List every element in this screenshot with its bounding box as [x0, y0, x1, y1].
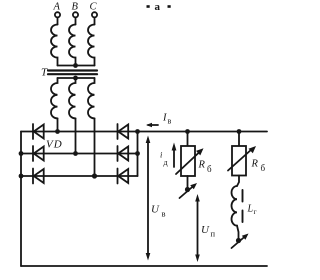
svg-text:д: д — [164, 158, 168, 167]
svg-text:R: R — [198, 160, 206, 171]
primary star link wire — [58, 65, 95, 67]
wire branch1 to resistor — [187, 132, 189, 147]
node left bus row3 — [19, 174, 24, 179]
node phase a row1 — [55, 129, 60, 134]
arc electrode dot no.2 — [236, 238, 241, 243]
wire secondary b to bridge row 2 — [75, 118, 77, 153]
label R6 no.1 — [198, 160, 213, 175]
transformer T primary winding phase A — [51, 25, 57, 66]
resistor R6 no.2 — [232, 146, 246, 176]
svg-text:T: T — [41, 67, 48, 79]
wire resistor2 to inductor — [237, 176, 239, 187]
diode VD1 — [33, 124, 44, 139]
svg-text:б: б — [261, 163, 266, 173]
svg-text:в: в — [168, 117, 172, 126]
adjust arrow of resistor no.1 — [176, 148, 204, 174]
bridge row 2 wire — [21, 153, 138, 155]
label Up — [201, 224, 216, 239]
terminal A — [55, 12, 60, 17]
current arrow Iv — [146, 123, 158, 127]
transformer core line upper — [48, 69, 97, 71]
resistor R6 no.1 — [181, 146, 195, 176]
terminal B — [73, 12, 78, 17]
node primary star point — [73, 63, 78, 68]
label id — [160, 150, 168, 168]
terminal C — [92, 12, 97, 17]
wire C to primary — [94, 17, 96, 24]
svg-text:B: B — [72, 2, 79, 13]
svg-text:в: в — [162, 209, 166, 219]
node left bus row2 — [19, 151, 24, 156]
node right bus row2 — [135, 151, 140, 156]
diode VD2 — [33, 146, 44, 161]
secondary star link wire — [58, 77, 95, 79]
caption a — [147, 1, 171, 13]
label R6 no.2 — [251, 159, 266, 174]
node phase c row3 — [92, 173, 97, 178]
node secondary star point — [73, 76, 78, 81]
svg-text:б: б — [207, 164, 212, 174]
node branch2 top — [237, 129, 242, 134]
wire A to primary — [57, 17, 59, 24]
voltage arrow Up — [195, 194, 200, 262]
svg-text:U: U — [201, 224, 210, 236]
transformer T secondary winding phase c — [88, 78, 95, 118]
svg-text:I: I — [162, 113, 167, 124]
wire secondary c to bridge row 3 — [94, 118, 96, 176]
arc electrode dot no.1 — [185, 187, 190, 192]
bridge row 1 wire — [21, 131, 138, 133]
diode VD6 — [118, 169, 129, 184]
diode VD5 — [118, 146, 129, 161]
inductor core dash 1 — [242, 190, 244, 202]
node right bus row1 — [135, 129, 140, 134]
top output wire — [138, 131, 268, 133]
svg-text:п: п — [211, 229, 216, 239]
bridge row 3 wire — [21, 175, 138, 177]
wire B to primary — [75, 17, 77, 24]
svg-text:A: A — [53, 2, 61, 13]
transformer T secondary winding phase b — [69, 78, 76, 118]
diode VD4 — [118, 124, 129, 139]
wire inductor to arc electrode — [237, 226, 239, 239]
label Lg — [247, 204, 257, 217]
right bus wire — [137, 132, 139, 177]
svg-text:U: U — [151, 204, 160, 216]
inductor Lg coil — [231, 186, 237, 226]
svg-text:R: R — [251, 159, 259, 170]
arc gap arrow no.2 — [232, 234, 249, 249]
svg-text:L: L — [247, 204, 254, 215]
wire resistor1 to arc electrode — [187, 176, 189, 188]
svg-text:а: а — [155, 1, 161, 13]
bottom return wire — [21, 265, 267, 267]
node branch1 top — [185, 129, 190, 134]
transformer T primary winding phase C — [88, 25, 95, 66]
transformer T primary winding phase B — [69, 25, 76, 66]
label Iv — [162, 113, 172, 126]
label Uv — [151, 204, 166, 219]
current arrow id — [172, 143, 177, 168]
left bus wire — [20, 132, 22, 267]
diode VD3 — [33, 169, 44, 184]
node phase b row2 — [73, 151, 78, 156]
arc gap arrow no.1 — [180, 183, 198, 198]
svg-text:C: C — [90, 2, 98, 13]
transformer core line lower — [48, 73, 97, 75]
adjust arrow of resistor no.2 — [228, 146, 256, 171]
svg-text:VD: VD — [46, 139, 63, 151]
svg-text:г: г — [254, 207, 257, 216]
voltage arrow Uv — [146, 136, 151, 261]
wire branch2 to resistor — [238, 132, 240, 147]
wire secondary a to bridge row 1 — [57, 118, 59, 131]
transformer T secondary winding phase a — [51, 78, 58, 118]
inductor core dash 2 — [242, 211, 244, 223]
